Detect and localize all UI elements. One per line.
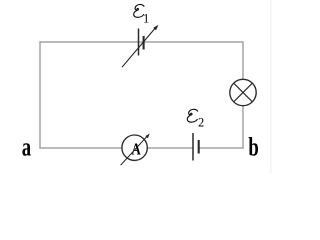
battery E2 long plate bbox=[192, 133, 194, 161]
wire right upper bbox=[242, 41, 244, 79]
lamp X1 cross bbox=[234, 83, 253, 102]
lamp X1 circle bbox=[230, 79, 256, 105]
battery E2 short plate bbox=[198, 140, 200, 154]
svg-text:b: b bbox=[248, 132, 258, 161]
battery E1 short plate bbox=[143, 36, 145, 50]
wire bottom middle bbox=[147, 147, 192, 149]
label E1 subscript 1 bbox=[143, 11, 149, 25]
node b label bbox=[248, 132, 258, 161]
wire bottom left bbox=[39, 147, 122, 149]
node a label bbox=[22, 132, 31, 161]
svg-text:A: A bbox=[131, 141, 140, 159]
svg-text:1: 1 bbox=[143, 11, 149, 25]
label E2 subscript 2 bbox=[198, 116, 204, 130]
label E2 script E bbox=[187, 109, 197, 122]
svg-text:2: 2 bbox=[198, 116, 204, 130]
ammeter A letter bbox=[131, 141, 140, 159]
ammeter variable arrow bbox=[121, 134, 150, 166]
wire right lower bbox=[242, 106, 244, 149]
faint page rule bbox=[270, 0, 272, 173]
battery E1 variable arrow bbox=[122, 25, 158, 67]
ammeter A circle bbox=[122, 135, 147, 160]
wire top bbox=[40, 41, 243, 43]
svg-text:a: a bbox=[22, 132, 31, 161]
wire bottom right bbox=[199, 147, 244, 149]
wire left bbox=[39, 41, 41, 148]
label E1 script E bbox=[134, 4, 144, 17]
battery E1 long plate bbox=[138, 29, 140, 56]
